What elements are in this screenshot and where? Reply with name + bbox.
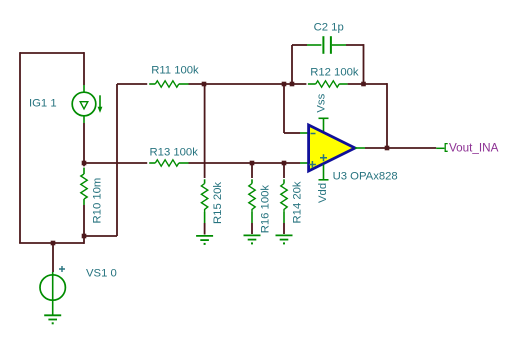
label Vdd (rotated) xyxy=(317,183,329,203)
label R11 100k xyxy=(151,65,199,77)
wire: C2 right riser xyxy=(363,44,365,84)
wire: IG1 bottom to node A xyxy=(83,123,85,163)
output node stub xyxy=(436,147,444,149)
node: VS1 tap on bottom edge xyxy=(51,241,56,246)
wire: VS1 feed xyxy=(52,243,54,272)
resistor R13 xyxy=(149,160,188,166)
label R14 20k (rotated) xyxy=(292,181,304,223)
plus mark VS1 xyxy=(59,266,65,272)
wire: R11 left riser xyxy=(116,84,118,236)
wire: source loop top edge xyxy=(20,52,84,54)
node: C2 right tap xyxy=(361,82,366,87)
voltage source VS1 xyxy=(40,272,65,315)
wire: source loop left edge xyxy=(19,52,21,243)
svg-text:R14 20k: R14 20k xyxy=(292,181,304,223)
wire: source loop bottom edge xyxy=(19,242,84,244)
wire: R15 column drop xyxy=(204,84,206,178)
label C2 1p xyxy=(314,22,344,34)
current source IG1 xyxy=(72,85,96,123)
svg-text:Vss: Vss xyxy=(315,93,327,112)
svg-text:R15 20k: R15 20k xyxy=(212,182,224,224)
wire: output run xyxy=(365,147,436,149)
label R15 20k (rotated) xyxy=(212,182,224,224)
wire: C2 left riser xyxy=(291,45,293,84)
output node bracket xyxy=(445,144,448,152)
wire: R16 to ground xyxy=(251,223,253,234)
wire: R15 to ground xyxy=(204,223,206,235)
wire: IG1 top feed xyxy=(83,52,85,85)
svg-text:Vdd: Vdd xyxy=(317,183,329,203)
capacitor C2 xyxy=(307,36,346,54)
op-amp plus mark (input) xyxy=(309,161,316,168)
op-amp minus mark xyxy=(311,133,316,135)
svg-text:R12 100k: R12 100k xyxy=(310,66,359,78)
op-amp - input pin stub xyxy=(300,132,308,134)
node: output junction xyxy=(385,146,390,151)
wire: C2 top right xyxy=(346,44,364,46)
resistor R15 xyxy=(201,179,207,223)
wire: R12 to feedback corner xyxy=(348,83,387,85)
op-amp U3 Vdd pin xyxy=(319,165,329,180)
wire: node A to R13 xyxy=(84,162,147,164)
wire: R14 to ground xyxy=(283,223,285,234)
node A junction (IG1/R10/R13 row) xyxy=(82,161,87,166)
svg-text:Vout_INA: Vout_INA xyxy=(449,141,499,154)
svg-text:R16 100k: R16 100k xyxy=(260,185,272,234)
wire: stub from bottom edge up to R10 bottom node xyxy=(83,236,85,244)
svg-text:R10 10m: R10 10m xyxy=(92,178,104,224)
label Vout_INA xyxy=(449,141,499,154)
resistor R12 xyxy=(308,81,348,87)
resistor R10 xyxy=(81,165,87,206)
ground below VS1 xyxy=(44,315,61,324)
svg-text:C2 1p: C2 1p xyxy=(314,22,344,34)
svg-text:IG1 1: IG1 1 xyxy=(29,98,57,110)
node: R10 bottom junction xyxy=(82,234,87,239)
svg-text:R11 100k: R11 100k xyxy=(151,65,199,77)
label R10 10m (rotated) xyxy=(92,178,104,224)
node: feedback tap to - input xyxy=(282,82,287,87)
IG1 direction arrow xyxy=(98,95,103,113)
op-amp U3 triangle xyxy=(309,125,355,171)
resistor R16 xyxy=(249,179,255,223)
op-amp U3 Vss pin xyxy=(319,118,329,132)
wire: R11 to R12 row xyxy=(189,83,307,85)
label R16 100k (rotated) xyxy=(260,185,272,234)
node: R16 tap xyxy=(250,161,255,166)
node: C2 left tap xyxy=(290,82,295,87)
op-amp plus mark (supply) xyxy=(320,154,327,161)
wire: - input row xyxy=(284,132,300,134)
node: R14 tap xyxy=(282,161,287,166)
label IG1 1 xyxy=(29,98,57,110)
label Vss (rotated) xyxy=(315,93,327,112)
wire: feedback drop to output xyxy=(386,83,388,148)
wire: C2 top left xyxy=(292,44,307,46)
op-amp + input pin stub xyxy=(300,162,308,164)
resistor R11 xyxy=(117,81,189,87)
wire: R10 bottom lead xyxy=(83,205,85,236)
svg-text:R13 100k: R13 100k xyxy=(150,147,199,159)
ground below R16 xyxy=(244,235,261,244)
label U3 OPAx828 xyxy=(333,171,398,183)
wire: R16 column drop xyxy=(251,163,253,178)
op-amp output pin stub xyxy=(355,147,365,149)
svg-text:U3 OPAx828: U3 OPAx828 xyxy=(333,171,398,183)
label R13 100k xyxy=(150,147,199,159)
resistor R14 xyxy=(281,179,287,223)
ground below R15 xyxy=(196,236,213,245)
wire: drop to - input row xyxy=(283,84,285,133)
wire: R13 to op-amp + input xyxy=(189,162,301,164)
svg-text:VS1 0: VS1 0 xyxy=(86,267,117,279)
wire: R14 column drop xyxy=(283,163,285,178)
label R12 100k xyxy=(310,66,359,78)
label VS1 0 xyxy=(86,267,117,279)
node: R11/R15 junction xyxy=(202,82,207,87)
ground below R14 xyxy=(276,235,293,244)
wire: bottom node to R11 left riser xyxy=(84,235,117,237)
